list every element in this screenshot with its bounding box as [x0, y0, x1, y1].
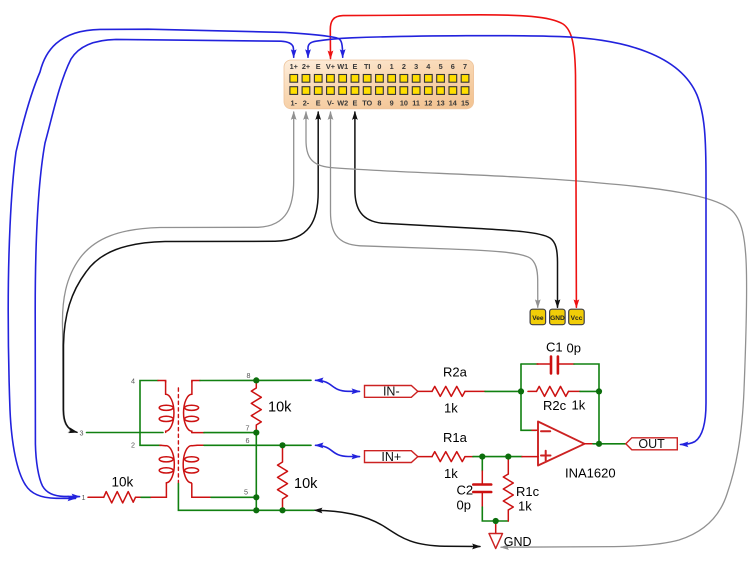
svg-text:1+: 1+: [290, 62, 298, 71]
svg-text:1k: 1k: [572, 398, 586, 413]
transformer secondary upper winding: [184, 381, 199, 432]
svg-text:IN-: IN-: [383, 385, 400, 399]
lead red lower-right winding top stub: [197, 444, 204, 446]
svg-text:1-: 1-: [291, 99, 298, 108]
wire pin8 green: [200, 379, 311, 381]
connector bottom pin labels: [291, 99, 470, 108]
svg-text:2: 2: [402, 62, 406, 71]
resistor R1c: [503, 474, 513, 510]
wire gray net 2- around right edge to GND symbol: [306, 112, 747, 547]
power box Vee: [530, 309, 546, 325]
svg-text:6: 6: [451, 62, 455, 71]
wire transformer center to bottom rail green: [178, 484, 314, 511]
connector pads row 1: [290, 75, 469, 83]
svg-text:2: 2: [131, 441, 135, 450]
svg-text:6: 6: [246, 436, 250, 445]
svg-text:3: 3: [80, 429, 84, 438]
svg-text:IN+: IN+: [381, 450, 401, 464]
resistor 10k secondary upper: [251, 381, 261, 433]
svg-text:E: E: [316, 62, 321, 71]
lead red opamp output: [585, 443, 594, 445]
wire blue S-link transformer pin 8 to IN-: [316, 380, 360, 391]
wire pin3 green: [87, 432, 164, 434]
junction dot feedback node: [518, 388, 524, 394]
svg-text:3: 3: [414, 62, 418, 71]
svg-text:V-: V-: [327, 99, 334, 108]
lead red pin1 stub: [88, 496, 104, 498]
svg-text:0p: 0p: [457, 498, 471, 513]
wire green R2a to feedback node: [485, 390, 521, 392]
svg-text:1k: 1k: [444, 401, 458, 416]
wire green feedback top rail right: [574, 364, 599, 391]
svg-text:W1: W1: [337, 62, 348, 71]
svg-text:13: 13: [437, 99, 445, 108]
svg-text:GND: GND: [504, 535, 532, 549]
OPAMP-SECTION: [365, 340, 678, 550]
wire vertical pin7 to bottom rail green: [255, 433, 257, 511]
lead red R2a right: [465, 390, 485, 392]
port IN-: [365, 385, 418, 399]
op-amp U1 INA1620: [538, 422, 585, 466]
svg-text:8: 8: [377, 99, 381, 108]
svg-text:R1a: R1a: [443, 430, 468, 445]
wire green feedback left vertical: [521, 364, 536, 430]
transformer primary lower winding: [159, 445, 174, 483]
resistor R2a: [432, 386, 465, 396]
svg-text:4: 4: [131, 377, 135, 386]
wire green R1a to plus node: [473, 456, 522, 458]
junction dot rail left: [253, 507, 259, 513]
power box Vcc: [569, 309, 585, 325]
lead red opamp plus input: [522, 456, 538, 458]
wire black net E2 to GND box: [355, 112, 558, 307]
wire pin5 green: [211, 496, 256, 498]
svg-text:TI: TI: [364, 62, 371, 71]
svg-text:7: 7: [463, 62, 467, 71]
svg-text:Vee: Vee: [532, 315, 544, 322]
svg-text:9: 9: [390, 99, 394, 108]
pin number labels: [80, 371, 251, 502]
svg-text:10k: 10k: [294, 476, 318, 492]
svg-text:5: 5: [244, 488, 248, 497]
lead red C2 bottom: [481, 493, 483, 507]
junction dot pin5: [253, 494, 259, 500]
svg-text:C2: C2: [457, 483, 474, 498]
svg-text:2-: 2-: [303, 99, 310, 108]
junction dot pin6: [279, 442, 285, 448]
svg-text:0p: 0p: [567, 341, 581, 356]
lead red pin1 resistor right: [136, 496, 142, 498]
wire pin4 to pin2 green: [140, 381, 161, 446]
wire green R2c to output vertical: [580, 391, 599, 443]
svg-text:10: 10: [400, 99, 408, 108]
svg-text:0: 0: [377, 62, 381, 71]
svg-text:15: 15: [461, 99, 469, 108]
svg-text:1k: 1k: [444, 466, 458, 481]
resistor R1a: [432, 452, 465, 462]
lead red C1 left: [537, 363, 550, 365]
lead red upper-right winding bottom stub: [192, 432, 204, 434]
lead red GND stem: [495, 521, 497, 534]
svg-text:E: E: [316, 99, 321, 108]
junction dot C2 top node: [479, 454, 485, 460]
svg-text:14: 14: [449, 99, 458, 108]
capacitor C1 plates: [551, 357, 558, 374]
lead red R2c left: [528, 390, 537, 392]
wire pin6 green: [204, 444, 311, 446]
junction dot pin7: [253, 430, 259, 436]
wire black transformer bottom rail to GND symbol: [315, 510, 481, 546]
power box GND: [550, 309, 566, 325]
connector J1 body: [284, 60, 474, 109]
svg-text:R2c: R2c: [543, 398, 567, 413]
svg-text:R1c: R1c: [516, 484, 540, 499]
svg-text:V+: V+: [326, 62, 335, 71]
svg-text:7: 7: [246, 424, 250, 433]
wire gray net 1- to transformer pin 3: [62, 112, 293, 432]
ground symbol: [489, 534, 503, 549]
wire green C2 to bottom rail: [482, 507, 508, 521]
lead red lower-right winding bottom: [191, 483, 211, 497]
junction dot pin8: [253, 377, 259, 383]
svg-text:TO: TO: [362, 99, 372, 108]
svg-text:Vcc: Vcc: [571, 315, 583, 322]
lead red R1c bottom: [507, 510, 509, 521]
svg-text:8: 8: [247, 371, 251, 380]
lead red upper-left winding top stub: [158, 381, 166, 383]
svg-text:5: 5: [439, 62, 443, 71]
svg-text:E: E: [352, 99, 357, 108]
svg-text:OUT: OUT: [638, 437, 665, 451]
svg-text:12: 12: [424, 99, 432, 108]
resistor 10k secondary lower: [278, 445, 288, 510]
junction dot R2c right node: [596, 388, 602, 394]
transformer core dashed: [177, 388, 179, 483]
port OUT: [626, 437, 678, 451]
wire gray net V- to Vee box: [331, 112, 538, 307]
TRANSFORMER: [87, 380, 319, 510]
connector top pin labels: [290, 62, 467, 71]
wire blue 2+ to OUT port: [308, 36, 706, 445]
resistor R2c: [537, 386, 569, 396]
lead red C2 top: [481, 471, 483, 483]
lead red IN+ to R1a: [418, 456, 432, 458]
lead red IN- to R2a: [418, 390, 432, 392]
wire green output to OUT port: [593, 443, 626, 445]
svg-text:2+: 2+: [302, 62, 310, 71]
port IN+: [365, 450, 418, 464]
wire pin7 green: [204, 432, 256, 434]
wire blue 1+ to transformer pin 1: [35, 39, 294, 496]
wire black net E to transformer pin 3: [64, 112, 319, 432]
svg-text:1: 1: [82, 493, 86, 502]
svg-text:W2: W2: [337, 99, 348, 108]
lead red lower-left winding bottom: [151, 483, 166, 497]
svg-text:GND: GND: [550, 315, 565, 322]
svg-text:1k: 1k: [518, 499, 532, 514]
wire blue W1 to transformer pin 1: [8, 29, 343, 498]
svg-text:R2a: R2a: [443, 365, 468, 380]
transformer primary upper winding: [159, 381, 174, 432]
lead red opamp minus input: [532, 429, 538, 431]
svg-text:INA1620: INA1620: [565, 466, 616, 481]
lead red upper-right winding top stub: [192, 381, 200, 383]
wire pin1 resistor to winding green: [141, 496, 151, 498]
capacitor C2 plates: [473, 485, 491, 493]
junction dot GND rail node: [493, 518, 499, 524]
svg-text:10k: 10k: [112, 475, 134, 490]
wire red V+ to Vcc box: [330, 15, 576, 308]
wire green C2 branch upper: [481, 457, 483, 471]
svg-text:E: E: [352, 62, 357, 71]
svg-text:C1: C1: [546, 340, 563, 355]
svg-text:1: 1: [390, 62, 394, 71]
wire blue S-link transformer pin 6 to IN+: [316, 445, 360, 456]
svg-text:10k: 10k: [268, 400, 292, 416]
transformer secondary lower winding: [183, 445, 198, 483]
connector pads row 2: [290, 87, 469, 95]
lead red R2c right: [569, 390, 581, 392]
resistor 10k at pin1: [104, 492, 136, 503]
wire green feedback top rail left: [521, 363, 538, 365]
lead red R1a right: [465, 456, 473, 458]
junction dot R1c top node: [505, 454, 511, 460]
junction dot rail right: [279, 507, 285, 513]
lead red R1c top: [507, 457, 509, 474]
junction dot output node: [596, 441, 602, 447]
svg-text:11: 11: [412, 99, 420, 108]
lead red C1 right: [559, 363, 574, 365]
